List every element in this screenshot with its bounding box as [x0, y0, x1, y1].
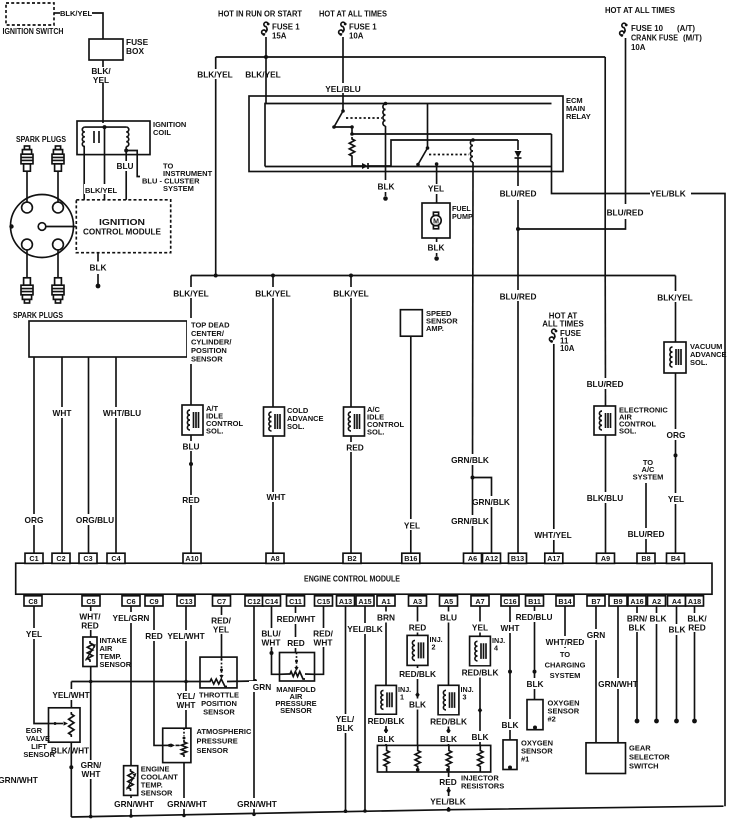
wire A1 column BRN	[371, 606, 401, 745]
wire coil to instrument cluster BLU	[116, 151, 213, 200]
svg-text:(A/T): (A/T)	[677, 24, 695, 33]
wire resistors tap RED YEL/BLK to bus	[430, 772, 467, 812]
wire A8 column : cold advance sol	[271, 274, 275, 554]
svg-text:A13: A13	[339, 597, 352, 606]
svg-text:3: 3	[463, 692, 467, 701]
svg-text:M: M	[433, 218, 439, 225]
svg-text:WHT: WHT	[314, 638, 333, 648]
svg-text:WHT/RED: WHT/RED	[546, 637, 585, 647]
svg-text:C8: C8	[28, 597, 37, 606]
wire A10 column : rail corner, A/T idle control sol	[190, 276, 192, 554]
svg-text:C14: C14	[265, 597, 278, 606]
hot at all times header (middle)	[319, 10, 387, 19]
connector C4	[107, 553, 125, 563]
svg-text:A16: A16	[630, 597, 643, 606]
svg-text:15A: 15A	[272, 32, 287, 41]
svg-text:C6: C6	[126, 597, 135, 606]
connector C12	[245, 596, 263, 606]
svg-text:10A: 10A	[631, 43, 646, 52]
fuse 1 10A	[339, 22, 378, 40]
wire A4 column BLK to terminal	[666, 606, 688, 723]
svg-text:A4: A4	[672, 597, 681, 606]
svg-text:BLK: BLK	[501, 720, 518, 730]
svg-text:AMP.: AMP.	[426, 324, 444, 333]
wire C9 column RED to atmospheric pressure sensor	[140, 606, 168, 745]
wire B8 column TO A/C SYSTEM, BLU/RED	[628, 458, 665, 553]
svg-text:ENGINE CONTROL MODULE: ENGINE CONTROL MODULE	[304, 575, 401, 584]
connector B4	[667, 553, 685, 563]
label BLK/YEL left	[197, 69, 233, 80]
svg-text:SOL.: SOL.	[206, 427, 224, 436]
connector A8	[266, 553, 284, 563]
ignition switch	[3, 3, 64, 36]
EGR valve lift sensor	[23, 708, 80, 759]
svg-text:BLK/YEL: BLK/YEL	[245, 70, 281, 80]
wire IAT to ground bus GRN/WHT	[78, 667, 105, 819]
wire A13 column YEL/BLK to bus	[331, 606, 360, 813]
injector 4	[470, 636, 506, 666]
svg-text:YEL/GRN: YEL/GRN	[113, 613, 150, 623]
svg-text:B2: B2	[347, 554, 356, 563]
connector A5	[440, 596, 458, 606]
relay switch 2	[416, 104, 429, 167]
svg-text:WHT: WHT	[82, 769, 101, 779]
relay switch 1	[332, 109, 345, 129]
connector B2	[343, 553, 361, 563]
svg-text:BLK: BLK	[427, 243, 444, 253]
svg-text:RED/BLK: RED/BLK	[368, 716, 405, 726]
wire A18 column BLK/RED to terminal	[687, 606, 707, 723]
connector A2	[648, 596, 666, 606]
wire A9 column BLU/RED, electronic air control sol, BLK/BLU	[587, 276, 624, 407]
connector C14	[263, 596, 281, 606]
relay coil 1	[383, 102, 387, 126]
oxygen sensor 2	[527, 699, 580, 730]
svg-text:A17: A17	[547, 554, 560, 563]
connector A6	[464, 553, 482, 563]
svg-text:A15: A15	[358, 597, 371, 606]
svg-text:(M/T): (M/T)	[683, 34, 702, 43]
svg-text:SENSOR: SENSOR	[191, 355, 223, 364]
svg-text:YEL: YEL	[93, 75, 109, 85]
svg-text:10A: 10A	[349, 32, 364, 41]
connector C8	[24, 596, 42, 606]
svg-text:ORG/BLU: ORG/BLU	[76, 515, 114, 525]
wire ECT to bus GRN/WHT	[114, 795, 154, 817]
label WHT on A8 column	[261, 492, 291, 502]
relay coil 2	[470, 138, 474, 162]
svg-text:1: 1	[400, 692, 404, 701]
svg-text:RED: RED	[182, 495, 200, 505]
connector A1	[377, 596, 395, 606]
svg-text:#1: #1	[521, 755, 529, 764]
relay diode (x518)	[515, 140, 522, 172]
svg-text:BLK: BLK	[409, 700, 426, 710]
connector A3	[409, 596, 427, 606]
label BLK/YEL right of drop	[245, 70, 281, 80]
svg-text:SOL.: SOL.	[690, 358, 708, 367]
svg-text:WHT: WHT	[262, 638, 281, 648]
svg-text:BLK: BLK	[336, 723, 353, 733]
svg-text:C13: C13	[179, 597, 192, 606]
wire C14 column BLU/WHT to MAP	[257, 606, 286, 674]
wire TPS out to MAP junction	[227, 679, 257, 683]
svg-text:A8: A8	[270, 554, 279, 563]
svg-text:BRN: BRN	[377, 613, 395, 623]
wire B14 column WHT/RED to charging system	[545, 606, 586, 680]
svg-text:C15: C15	[317, 597, 330, 606]
svg-text:SENSOR: SENSOR	[203, 708, 235, 717]
wire A5 column BLU	[434, 606, 464, 745]
wire C16 column WHT BLK to oxygen sensor 1	[495, 606, 525, 740]
wire fuse box to ignition coil BLK/YEL	[89, 60, 113, 123]
svg-text:10A: 10A	[560, 344, 575, 353]
relay switch1 dashed link	[346, 117, 382, 119]
svg-text:CHARGING: CHARGING	[545, 661, 586, 670]
injector 3	[438, 685, 474, 715]
engine coolant temp sensor	[124, 765, 179, 798]
svg-text:SYSTEM: SYSTEM	[633, 472, 664, 481]
rail BLK/YEL (y275.5)	[191, 275, 676, 277]
svg-text:B14: B14	[558, 597, 571, 606]
svg-text:RED: RED	[346, 443, 364, 453]
svg-text:PRESSURE: PRESSURE	[197, 737, 238, 746]
svg-text:SENSOR: SENSOR	[280, 706, 312, 715]
injector 2	[407, 635, 443, 666]
connector A4	[668, 596, 686, 606]
MAP resistor stubs	[280, 673, 315, 675]
wire relay output YEL/BLK to right side	[552, 172, 726, 807]
svg-text:YEL: YEL	[428, 184, 444, 194]
wire B4 column : vacuum advance sol, ORG, YEL	[657, 276, 694, 343]
wire BLK/YEL junction drop into relay (x267)	[265, 57, 267, 104]
wire C12 column GRN to bus	[236, 606, 278, 816]
wire C13 column YEL/WHT	[167, 606, 205, 728]
svg-text:RED: RED	[409, 623, 427, 633]
wire A2 column BLK to terminal	[649, 606, 667, 723]
wire A17 column WHT/YEL	[534, 344, 571, 553]
svg-text:C5: C5	[86, 597, 95, 606]
wire A3 RED/BLK BLK	[398, 668, 438, 710]
connector C3	[79, 553, 97, 563]
wire APS to bus GRN/WHT	[167, 763, 207, 818]
svg-text:#2: #2	[548, 715, 556, 724]
wire B2 column : a/c idle control sol	[349, 274, 353, 554]
relay resistor	[349, 137, 354, 158]
connector C9	[145, 596, 163, 606]
svg-text:WHT: WHT	[501, 623, 520, 633]
svg-text:B7: B7	[591, 597, 600, 606]
ignition control module	[76, 200, 170, 253]
wire A7 RED/BLK BLK	[460, 667, 500, 743]
svg-text:YEL: YEL	[213, 625, 229, 635]
svg-text:RED/BLK: RED/BLK	[399, 669, 436, 679]
svg-text:BLU: BLU	[440, 613, 457, 623]
connector B14	[556, 596, 574, 606]
connector A7	[471, 596, 489, 606]
wire fuel pump to ground BLK	[427, 238, 444, 261]
svg-text:A9: A9	[601, 554, 610, 563]
svg-text:GRN/WHT: GRN/WHT	[0, 775, 38, 785]
wire fuse1 to rail	[264, 37, 268, 59]
wire C11 column RED/WHT RED to MAP	[276, 606, 316, 653]
connector C7	[213, 596, 231, 606]
relay resistor to diode-arrow path	[352, 140, 518, 169]
fuse 1 15A	[262, 22, 301, 40]
fuse box	[89, 37, 149, 60]
svg-text:SYSTEM: SYSTEM	[163, 184, 194, 193]
svg-text:SWITCH: SWITCH	[629, 762, 659, 771]
svg-text:COIL: COIL	[153, 128, 171, 137]
svg-text:WHT/BLU: WHT/BLU	[103, 408, 141, 418]
svg-text:GRN/BLK: GRN/BLK	[472, 497, 510, 507]
svg-text:BLK/YEL: BLK/YEL	[657, 293, 693, 303]
svg-text:SELECTOR: SELECTOR	[629, 753, 670, 762]
svg-text:BLK/YEL: BLK/YEL	[85, 186, 118, 195]
connector C11	[287, 596, 305, 606]
svg-text:CONTROL MODULE: CONTROL MODULE	[83, 228, 161, 237]
svg-text:TO: TO	[560, 650, 570, 659]
electronic air control sol	[594, 406, 668, 436]
svg-text:C11: C11	[289, 597, 302, 606]
svg-text:GRN/WHT: GRN/WHT	[237, 799, 277, 809]
svg-text:A18: A18	[688, 597, 701, 606]
svg-text:GRN: GRN	[587, 630, 605, 640]
svg-text:SPARK PLUGS: SPARK PLUGS	[13, 311, 63, 320]
svg-text:BLK: BLK	[668, 625, 685, 635]
connector C15	[315, 596, 333, 606]
wire rail right drop (x605) to rail2 and on to EACS	[604, 57, 606, 276]
top dead center/cylinder/position sensor	[29, 318, 239, 364]
svg-text:YEL/BLK: YEL/BLK	[347, 624, 383, 634]
svg-text:A2: A2	[652, 597, 661, 606]
connector B8	[637, 553, 655, 563]
wire EGR feed YEL/WHT	[52, 682, 89, 708]
svg-text:BLU: BLU	[182, 442, 199, 452]
wire A7 column YEL	[465, 606, 495, 745]
svg-text:FUSE 1: FUSE 1	[272, 23, 300, 32]
svg-text:WHT: WHT	[267, 492, 286, 502]
svg-text:A5: A5	[444, 597, 453, 606]
svg-text:YEL/BLK: YEL/BLK	[650, 189, 686, 199]
svg-text:GRN/BLK: GRN/BLK	[451, 516, 489, 526]
wire B16 column YEL	[398, 336, 426, 553]
connector A18	[686, 596, 704, 606]
connector A10	[183, 553, 201, 563]
svg-text:YEL/WHT: YEL/WHT	[52, 690, 89, 700]
svg-text:C3: C3	[83, 554, 92, 563]
hot in run or start header	[218, 10, 302, 19]
svg-text:2: 2	[432, 642, 436, 651]
svg-text:BLK/YEL: BLK/YEL	[197, 70, 233, 80]
gear selector switch	[586, 743, 670, 774]
svg-text:BLK: BLK	[377, 734, 394, 744]
svg-text:BLK: BLK	[377, 182, 394, 192]
svg-text:IGNITION: IGNITION	[99, 218, 145, 227]
svg-text:PUMP: PUMP	[452, 212, 473, 221]
sensor reference line y681.5	[71, 681, 208, 683]
throttle position sensor	[199, 657, 239, 716]
wire relay to B13 BLU/RED with crank fuse join	[500, 172, 537, 272]
wire YEL/BLU fuse to relay switch1	[325, 37, 361, 111]
speed sensor amp	[400, 309, 458, 336]
svg-text:GRN/WHT: GRN/WHT	[598, 679, 638, 689]
svg-text:ALL TIMES: ALL TIMES	[542, 320, 584, 329]
wire coil1 to ground BLK	[374, 126, 398, 201]
svg-text:C9: C9	[149, 597, 158, 606]
engine control module box	[16, 563, 712, 594]
svg-text:HOT AT ALL TIMES: HOT AT ALL TIMES	[605, 6, 675, 15]
wire B9 column GRN/WHT to gear selector switch	[598, 606, 638, 743]
relay fuel pump contact	[435, 162, 439, 166]
svg-text:C1: C1	[29, 554, 38, 563]
wire B13 column lower BLU/RED	[500, 271, 537, 553]
rail BLK/YEL top (y57)	[216, 56, 606, 58]
svg-text:FUSE 1: FUSE 1	[349, 23, 377, 32]
connector B13	[509, 553, 527, 563]
svg-text:BLK/BLU: BLK/BLU	[587, 493, 623, 503]
wire B7 column GRN to gear selector switch	[582, 606, 610, 743]
ground bus GRN/WHT - YEL/BLK	[71, 806, 723, 817]
svg-text:C12: C12	[247, 597, 260, 606]
svg-text:A12: A12	[485, 554, 498, 563]
svg-text:YEL: YEL	[472, 623, 488, 633]
wire C2 WHT	[47, 357, 77, 553]
svg-text:BLU/RED: BLU/RED	[500, 292, 537, 302]
wire C3 ORG/BLU	[72, 357, 119, 553]
svg-text:A1: A1	[381, 597, 390, 606]
svg-text:YEL/BLU: YEL/BLU	[325, 84, 361, 94]
svg-text:WHT: WHT	[53, 408, 72, 418]
wire C15 column RED/WHT to MAP	[309, 606, 338, 674]
wire fuel pump YEL	[428, 164, 444, 203]
spark plugs bottom	[13, 250, 64, 320]
svg-text:BLK: BLK	[471, 732, 488, 742]
wire distributor to ICM	[46, 226, 77, 228]
label RED on B2 column	[342, 442, 367, 453]
svg-text:ORG: ORG	[667, 430, 686, 440]
vacuum advance sol	[664, 342, 727, 373]
svg-text:GRN: GRN	[253, 682, 271, 692]
wire A12 branch GRN/BLK	[472, 478, 510, 554]
svg-text:RED: RED	[688, 623, 706, 633]
hot at all times (fuse 11)	[542, 312, 584, 329]
wire A6 column from relay coil2, GRN/BLK	[472, 162, 475, 553]
wire EGR to bus BLK/WHT GRN/WHT	[0, 742, 89, 817]
svg-text:A7: A7	[475, 597, 484, 606]
svg-text:B13: B13	[511, 554, 524, 563]
wire C1 ORG	[20, 357, 48, 553]
svg-text:BLK/YEL: BLK/YEL	[333, 289, 369, 299]
wire B11 column RED/BLU BLK to oxygen sensor 2	[516, 606, 553, 700]
svg-text:RED/BLK: RED/BLK	[430, 717, 467, 727]
svg-text:BLU/RED: BLU/RED	[500, 189, 537, 199]
connector C5	[82, 596, 100, 606]
relay output right (x551.5)	[551, 134, 553, 172]
svg-text:BLK: BLK	[89, 263, 106, 273]
svg-text:C4: C4	[111, 554, 120, 563]
fuse 11 10A	[549, 329, 581, 353]
svg-text:GEAR: GEAR	[629, 744, 651, 753]
svg-text:ORG: ORG	[25, 515, 44, 525]
svg-text:GRN/BLK: GRN/BLK	[451, 455, 489, 465]
wire ICM to ground BLK	[89, 253, 106, 289]
connector A12	[483, 553, 501, 563]
wire A5 RED/BLK BLK	[429, 716, 469, 745]
connector A9	[597, 553, 615, 563]
svg-text:A3: A3	[413, 597, 422, 606]
connector B9	[609, 596, 627, 606]
svg-text:WHT: WHT	[177, 700, 196, 710]
oxygen sensor 1	[503, 739, 553, 770]
svg-text:SOL.: SOL.	[367, 428, 385, 437]
svg-text:SENSOR: SENSOR	[100, 660, 132, 669]
wire C4 WHT/BLU	[101, 357, 144, 553]
svg-text:RED/WHT: RED/WHT	[277, 614, 316, 624]
manifold air pressure sensor	[275, 653, 316, 716]
labels BLU / RED on A10 column	[179, 441, 204, 505]
svg-text:GRN/WHT: GRN/WHT	[167, 799, 207, 809]
ECM main relay inner box	[265, 104, 552, 167]
svg-text:A10: A10	[185, 554, 198, 563]
wire C8 column YEL to EGR	[20, 606, 49, 724]
A/T idle control sol	[182, 404, 243, 436]
svg-text:A6: A6	[468, 554, 477, 563]
relay switch2 dashed link	[429, 154, 469, 156]
connector C1	[25, 553, 43, 563]
svg-text:ATMOSPHERIC: ATMOSPHERIC	[197, 727, 252, 736]
connector B7	[587, 596, 605, 606]
wire C6 column YEL/GRN to coolant sensor	[112, 606, 150, 766]
svg-text:YEL/BLK: YEL/BLK	[430, 797, 466, 807]
svg-text:YEL: YEL	[26, 629, 42, 639]
svg-text:WHT/YEL: WHT/YEL	[534, 530, 571, 540]
svg-text:FUSE 10: FUSE 10	[631, 24, 664, 33]
A/C idle control sol	[344, 405, 405, 437]
svg-text:BLU: BLU	[116, 161, 133, 171]
wire C5 column WHT/RED to intake air temp sensor	[75, 606, 107, 637]
distributor	[9, 195, 73, 258]
injector 1	[376, 685, 412, 714]
svg-text:B9: B9	[613, 597, 622, 606]
svg-text:B8: B8	[641, 554, 650, 563]
svg-text:B11: B11	[528, 597, 541, 606]
svg-text:BLK/WHT: BLK/WHT	[51, 746, 89, 756]
svg-text:HOT AT ALL TIMES: HOT AT ALL TIMES	[319, 10, 387, 19]
relay switch1 output to rail y134	[334, 125, 354, 136]
connector A13	[337, 596, 355, 606]
wire A16 column BRN/BLK to terminal	[622, 606, 652, 723]
svg-text:BLK: BLK	[440, 734, 457, 744]
svg-text:SPARK PLUGS: SPARK PLUGS	[16, 135, 66, 144]
label BLK/YEL coil to ICM	[84, 184, 119, 195]
svg-text:RED: RED	[81, 621, 99, 631]
wire C7 column RED/YEL to throttle position sensor	[206, 606, 237, 660]
svg-text:BLK/YEL: BLK/YEL	[173, 289, 209, 299]
svg-text:B16: B16	[404, 554, 417, 563]
connector C6	[122, 596, 140, 606]
svg-text:C7: C7	[217, 597, 226, 606]
svg-text:BLK: BLK	[628, 623, 645, 633]
cold advance sol	[264, 406, 324, 436]
connector A16	[628, 596, 646, 606]
wire ignition switch to fuse box BLK/YEL	[54, 9, 103, 39]
svg-text:SENSOR: SENSOR	[141, 789, 173, 798]
connector A15	[356, 596, 374, 606]
relay rail y134	[352, 133, 552, 135]
svg-text:BLU/RED: BLU/RED	[587, 379, 624, 389]
svg-text:SOL.: SOL.	[619, 427, 637, 436]
